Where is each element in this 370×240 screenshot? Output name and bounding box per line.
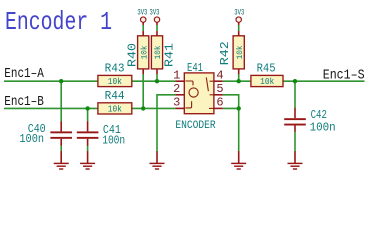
svg-text:3V3: 3V3 (150, 8, 160, 18)
pin6 stub (209, 107, 214, 109)
wire R44 to pin3 (132, 107, 175, 109)
junction dots (59, 79, 297, 111)
capacitor C40 (19, 122, 72, 146)
wire pin6 (223, 107, 239, 109)
pin5 stub (210, 94, 214, 96)
wire C40 riser (60, 81, 62, 121)
svg-text:10k: 10k (235, 45, 245, 59)
node Enc1-B / C41 (85, 106, 89, 110)
encoder wheel (189, 88, 198, 97)
C41 pins (87, 121, 89, 131)
pin 6 (214, 107, 223, 109)
capacitor C40 plates (50, 131, 72, 133)
C42 pins (294, 108, 296, 119)
ground C41 (80, 163, 95, 169)
resistor R44 (98, 89, 132, 114)
resistor R42 (218, 36, 245, 69)
pin 2 (175, 94, 184, 96)
pin numbers (173, 69, 224, 110)
ground encoder common (150, 163, 165, 169)
capacitor C41 plates (77, 131, 99, 133)
resistor R40 (126, 36, 150, 69)
node Enc1-A / C40 (59, 79, 63, 83)
svg-text:10k: 10k (108, 77, 122, 87)
wire C42 bottom (294, 132, 296, 152)
contact A (185, 81, 193, 85)
wire C41 riser (87, 108, 89, 121)
wire R41 bottom to pin1 net (156, 74, 158, 81)
ground pin mid-right (238, 151, 240, 163)
R42 pins (238, 22, 240, 25)
wire R42 bottom (238, 74, 240, 81)
encoder E41 (173, 61, 224, 132)
R40 pins (142, 22, 144, 25)
pin 5 (214, 94, 223, 96)
node R42 / pin4 (237, 79, 241, 83)
svg-text:ENCODER: ENCODER (175, 120, 216, 132)
svg-text:3V3: 3V3 (137, 8, 147, 18)
power symbol 3V3 no1 (137, 8, 147, 23)
wire pins 5/6 down to ground (238, 108, 240, 151)
capacitor C41 (77, 123, 125, 147)
wire 3V3 no3 (238, 25, 240, 32)
svg-text:Enc1–B: Enc1–B (4, 95, 44, 110)
wire R40 bottom to Enc1-B net (142, 74, 144, 108)
R41 pins (156, 22, 158, 25)
svg-text:6: 6 (216, 96, 223, 110)
svg-text:5: 5 (216, 82, 223, 96)
wire R43 to pin1 (132, 80, 175, 82)
node R41 / pin1 (155, 79, 159, 83)
svg-text:4: 4 (216, 69, 223, 83)
svg-text:Enc1–S: Enc1–S (323, 69, 365, 84)
resistor R45 (251, 61, 283, 87)
power symbol 3V3 no3 (234, 8, 244, 23)
svg-text:R42: R42 (218, 41, 232, 65)
wire C42 riser (294, 81, 296, 108)
svg-text:3V3: 3V3 (234, 8, 244, 18)
svg-text:R40: R40 (126, 43, 140, 67)
wire 3V3 no2 (156, 25, 158, 32)
node R40 / Enc1-B (141, 106, 145, 110)
capacitor C42 (284, 108, 335, 135)
contact B (185, 101, 191, 108)
ground C40 (54, 163, 69, 169)
svg-text:100n: 100n (102, 133, 125, 147)
ground pin C40 (60, 151, 62, 163)
wire Enc1-A horizontal left (4, 80, 98, 82)
svg-text:2: 2 (173, 82, 180, 96)
pin 4 (214, 80, 223, 82)
svg-text:Encoder 1: Encoder 1 (5, 7, 112, 37)
pin 3 (175, 107, 184, 109)
switch lever (206, 77, 208, 91)
power symbol 3V3 no2 (150, 8, 160, 23)
wire R45 to Enc1-S (283, 80, 364, 82)
wire pin4 to R45 (223, 80, 251, 82)
ground pin mid-left (156, 151, 158, 163)
svg-text:R44: R44 (105, 89, 125, 103)
svg-text:R45: R45 (257, 61, 276, 75)
svg-text:100n: 100n (19, 132, 44, 146)
svg-text:10k: 10k (139, 45, 149, 59)
resistor R43 (98, 61, 132, 87)
wire Enc1-B horizontal left (4, 107, 98, 109)
svg-text:Enc1–A: Enc1–A (4, 67, 44, 82)
svg-text:R41: R41 (163, 43, 177, 67)
wire C41 bottom (87, 146, 89, 152)
wire pin2 to ground run (157, 95, 175, 152)
svg-text:10k: 10k (153, 45, 163, 59)
wire pin5 L-run (223, 95, 239, 109)
node Enc1-S / C42 (293, 79, 297, 83)
node pin5/pin6 (237, 106, 241, 110)
svg-text:E41: E41 (187, 61, 203, 75)
svg-text:R43: R43 (105, 61, 125, 75)
ground switch (231, 163, 246, 169)
wire C40 bottom (60, 146, 62, 152)
pin4 stub (210, 80, 214, 82)
C40 pins (60, 121, 62, 131)
pin 1 (175, 80, 184, 82)
svg-text:10k: 10k (260, 77, 274, 87)
ground C42 (288, 163, 303, 169)
resistor R41 (151, 36, 176, 69)
ground pin C42 (294, 151, 296, 163)
svg-text:1: 1 (173, 69, 180, 83)
wire 3V3 no1 (142, 25, 144, 32)
ground pin C41 (87, 151, 89, 163)
capacitor C42 plates (284, 118, 306, 120)
svg-text:3: 3 (173, 96, 180, 110)
svg-text:10k: 10k (108, 104, 122, 114)
svg-text:100n: 100n (310, 121, 336, 135)
